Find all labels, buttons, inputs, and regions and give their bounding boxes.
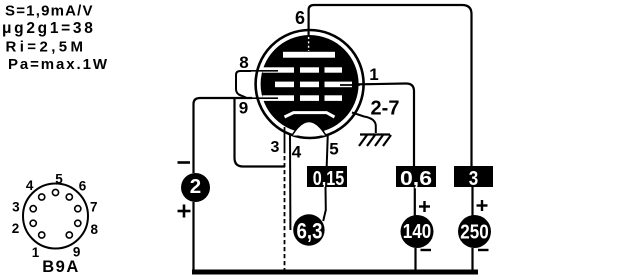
heater (white dome cutout) xyxy=(292,122,326,136)
wire pin8 bracket xyxy=(236,71,251,98)
wire 250 to bus xyxy=(471,248,473,271)
svg-text:0,15: 0,15 xyxy=(313,167,345,190)
B9A pin 7 xyxy=(75,206,81,212)
wire grid node down to cathode line xyxy=(235,99,286,167)
grid row 1 lead to pin 8 xyxy=(251,70,278,72)
svg-text:2: 2 xyxy=(190,175,201,198)
B9A pin 6 xyxy=(66,194,72,200)
svg-text:8: 8 xyxy=(91,222,99,237)
wire 0,15 to heater supply xyxy=(323,187,326,221)
chassis ground symbol xyxy=(359,135,391,147)
meter 3 (box) xyxy=(454,166,493,187)
wire 140 to bus xyxy=(414,248,416,271)
B9A pin 8 xyxy=(75,220,81,226)
B9A pin 1 xyxy=(39,232,45,238)
battery -2V bias: plus sign xyxy=(178,205,191,218)
wire grid node horizontal (pin9 to bias) xyxy=(194,98,253,173)
minus sign below 140 xyxy=(421,249,432,251)
svg-text:4: 4 xyxy=(292,143,302,162)
svg-text:μg2g1=38: μg2g1=38 xyxy=(2,20,96,37)
wire pin5 to 0,15 xyxy=(327,134,328,166)
svg-text:1: 1 xyxy=(369,65,378,84)
svg-text:9: 9 xyxy=(239,99,248,118)
svg-text:2-7: 2-7 xyxy=(371,98,400,120)
svg-text:6: 6 xyxy=(295,8,305,28)
minus sign below 250 xyxy=(478,249,489,251)
svg-text:B9A: B9A xyxy=(42,258,80,276)
B9A pin 9 xyxy=(66,232,72,238)
svg-text:5: 5 xyxy=(329,140,338,159)
svg-text:250: 250 xyxy=(460,221,489,244)
meter 0,6 (box) xyxy=(396,166,436,187)
wire pin6 to anode supply top xyxy=(309,5,472,166)
tube electrode block xyxy=(261,35,359,133)
svg-text:3: 3 xyxy=(271,139,280,156)
wire g2 supply branch xyxy=(414,187,416,216)
svg-text:0,6: 0,6 xyxy=(400,167,432,190)
svg-text:7: 7 xyxy=(90,200,98,215)
heater arc outline xyxy=(292,122,326,136)
cathode (white chevron) xyxy=(285,113,335,117)
wire pin4 to heater supply xyxy=(289,135,291,230)
B9A pin 4 xyxy=(39,194,45,200)
svg-text:1: 1 xyxy=(32,245,40,260)
plus sign above 250 xyxy=(477,200,488,211)
anode lead (white dotted inside block) xyxy=(308,37,310,51)
B9A pin 3 xyxy=(30,206,36,212)
B9A pin 5 xyxy=(52,189,58,195)
ground bus bar xyxy=(192,270,478,275)
wire pin3 cathode (dashed) xyxy=(284,127,286,149)
grid row 3 (white dashes) xyxy=(263,95,343,101)
B9A pin 2 xyxy=(30,220,36,226)
heater supply 6,3V circle xyxy=(293,214,324,245)
tube envelope xyxy=(256,30,364,138)
wire pin1 (g2) to right xyxy=(338,84,414,167)
wire pins 2-7 to chassis ground xyxy=(352,113,376,134)
meter 0,15 (box) xyxy=(307,166,347,187)
svg-text:8: 8 xyxy=(239,53,248,72)
wire bias battery to ground bus xyxy=(192,202,194,271)
plus sign above 140 xyxy=(419,201,430,212)
anode supply 250V circle xyxy=(458,215,491,248)
grid row 3 lead to pin 9 xyxy=(251,97,278,99)
grid row 2 (white dashes) xyxy=(275,82,352,88)
svg-text:4: 4 xyxy=(26,178,34,193)
screen supply 140V circle xyxy=(401,215,434,248)
svg-text:3: 3 xyxy=(12,200,20,215)
svg-text:6,3: 6,3 xyxy=(297,219,323,244)
svg-text:140: 140 xyxy=(403,220,432,243)
grid row 2 lead to pin 1 xyxy=(340,84,360,86)
svg-text:S=1,9mA/V: S=1,9mA/V xyxy=(5,3,94,20)
B9A base outline xyxy=(23,184,88,249)
grid row 1 (white dashes) xyxy=(263,67,343,72)
battery -2V bias: minus sign xyxy=(178,161,191,164)
svg-text:Ri=2,5M: Ri=2,5M xyxy=(6,39,87,56)
wire anode supply branch xyxy=(471,187,473,216)
svg-text:Pa=max.1W: Pa=max.1W xyxy=(8,56,109,73)
svg-text:6: 6 xyxy=(79,179,87,194)
anode plate (white bar) xyxy=(283,52,335,58)
svg-text:5: 5 xyxy=(55,172,63,187)
svg-text:2: 2 xyxy=(12,221,20,236)
battery -2V bias circle xyxy=(181,173,210,202)
svg-text:3: 3 xyxy=(469,167,479,190)
